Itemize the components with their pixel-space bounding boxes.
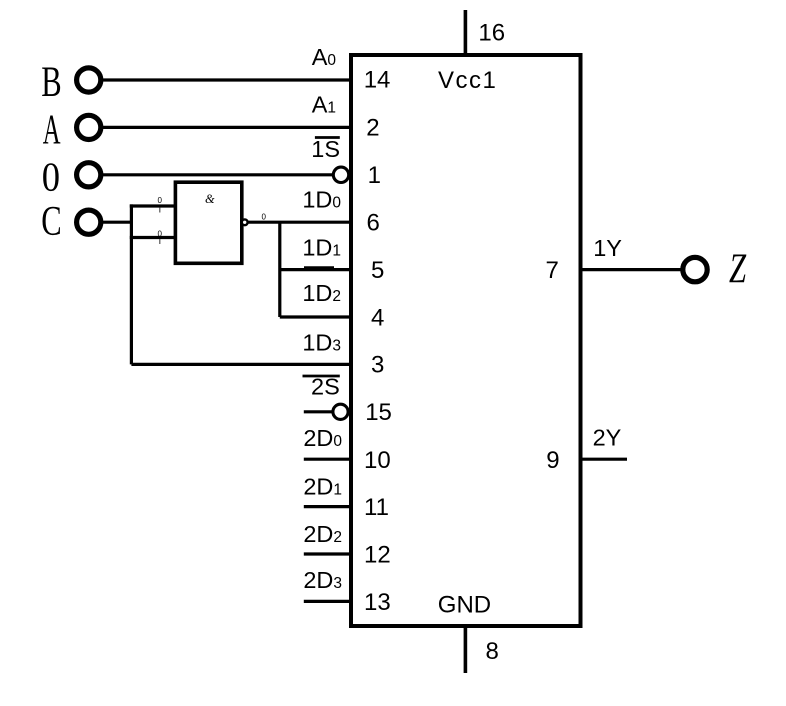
svg-text:0: 0 [42,155,60,201]
svg-text:2Y: 2Y [593,425,622,451]
svg-text:C: C [41,199,61,245]
svg-text:10: 10 [364,447,391,474]
svg-text:4: 4 [371,304,384,331]
svg-text:0: 0 [158,196,163,205]
svg-text:11: 11 [364,494,389,521]
svg-text:Z: Z [729,246,747,293]
svg-text:0: 0 [158,229,163,238]
svg-text:5: 5 [371,257,384,284]
svg-text:0: 0 [262,213,267,222]
svg-text:6: 6 [367,210,380,237]
svg-text:1Y: 1Y [593,235,622,261]
svg-text:7: 7 [546,257,559,284]
svg-text:3: 3 [371,352,384,379]
svg-text:1: 1 [368,162,381,189]
svg-text:A: A [43,107,61,153]
svg-text:16: 16 [478,20,505,47]
svg-text:1S: 1S [311,136,340,162]
svg-text:&: & [205,192,215,206]
svg-text:2: 2 [366,115,379,142]
svg-text:8: 8 [486,638,499,665]
svg-text:B: B [41,58,61,106]
svg-text:9: 9 [546,447,559,474]
svg-text:12: 12 [364,542,391,569]
svg-text:GND: GND [438,591,491,618]
svg-text:Vcc1: Vcc1 [438,67,497,94]
svg-text:15: 15 [365,399,392,426]
svg-text:13: 13 [364,589,391,616]
svg-text:14: 14 [364,67,391,94]
